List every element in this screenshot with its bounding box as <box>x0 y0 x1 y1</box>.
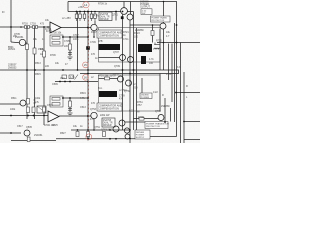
label box supply lower <box>135 130 150 139</box>
wire mid bus A <box>0 70 179 74</box>
transistor Q701 <box>121 8 128 15</box>
transistor Q707 <box>120 55 126 61</box>
wire rail drop left <box>67 2 69 12</box>
transistor Q753 <box>91 112 97 118</box>
transistor Q752 <box>113 126 119 132</box>
wire v160 <box>159 29 161 70</box>
wire v136 <box>136 28 138 138</box>
label box 0.22 top <box>141 9 152 15</box>
node 14 red circle <box>83 2 89 8</box>
label box diode lower <box>140 93 152 99</box>
transistor Q765 <box>124 128 129 133</box>
transistor Q705 <box>160 23 166 29</box>
label box comparator upper <box>97 30 122 38</box>
coil L701 <box>154 43 161 50</box>
labels scatter <box>2 0 188 137</box>
wire op-amp U2 output <box>59 115 91 117</box>
wire v184 <box>183 72 185 143</box>
transistor Q702 <box>127 14 133 20</box>
top bus stub components <box>75 12 96 22</box>
resistor black bar <box>141 56 146 64</box>
op-amp U2 <box>48 111 59 122</box>
wire bottom left <box>11 140 56 142</box>
wire right out2 <box>184 121 200 123</box>
wire bottom bus2 <box>56 138 135 140</box>
wire zd to Q501 <box>11 41 20 44</box>
wire v70 low <box>69 98 71 112</box>
wire v77 <box>77 12 79 71</box>
connector J501 <box>37 106 46 113</box>
label box driver lower <box>102 118 115 127</box>
wire v70 <box>69 37 71 56</box>
wire driver row low <box>134 118 159 120</box>
label box top right <box>151 16 171 22</box>
wire v165 <box>163 29 165 70</box>
resistors upper left <box>25 26 72 58</box>
node 15 red circle <box>83 62 89 68</box>
label box driver upper <box>99 12 112 21</box>
wire right edge bottom <box>184 139 200 141</box>
black junction square Q701 <box>121 16 124 19</box>
wire upper feedback <box>62 36 88 38</box>
wire v165b <box>164 98 166 122</box>
wire bus C <box>55 81 98 83</box>
label box comparator lower <box>97 103 122 111</box>
transistor Q709 <box>128 57 134 63</box>
feedback net box lower <box>50 96 63 107</box>
feedback net box upper <box>50 35 63 46</box>
transistor Q501 <box>19 39 25 45</box>
resistors lower left <box>27 99 72 113</box>
output device black bar <box>138 44 152 52</box>
wire v116 <box>115 12 117 21</box>
diode stack ticks <box>26 100 36 103</box>
big box upper power amp <box>99 28 161 63</box>
wire v88 main <box>87 12 89 141</box>
wire op-amp U1 output <box>61 27 91 29</box>
wire right top rail <box>68 2 177 137</box>
op-amp U1 <box>50 22 61 33</box>
wire v122 <box>122 15 124 131</box>
wire right out1 <box>177 92 201 94</box>
transistor Q757 <box>118 76 124 82</box>
wire v130 <box>129 20 131 143</box>
resistor below Q505 <box>27 137 30 142</box>
wire v133 <box>133 12 135 131</box>
wire protector row <box>125 121 145 123</box>
transistor Q703 <box>91 24 97 30</box>
ground upper <box>68 57 73 60</box>
wire bottom right bus <box>150 136 177 138</box>
node 17 red circle <box>86 134 92 140</box>
red dashed path marker <box>88 9 90 134</box>
wire q5 row <box>0 103 20 105</box>
wire Q701 collector <box>123 2 125 8</box>
wire upper input bus <box>0 26 50 28</box>
label box protector lower <box>145 122 169 129</box>
wire q505 row <box>0 132 21 134</box>
IC U751 black bar <box>99 91 117 97</box>
VR trimmer upper <box>62 75 78 80</box>
wire lower feedback <box>62 97 88 99</box>
diode D751 <box>125 134 130 139</box>
transistor Q755 <box>158 115 164 121</box>
transistor Q503 <box>20 100 26 106</box>
node 16 red circle <box>83 74 89 80</box>
transistor Q505 <box>24 130 30 136</box>
transistor Q751 <box>119 120 125 126</box>
wire bottom bus1 <box>71 129 131 131</box>
wire lower input bus <box>0 115 48 117</box>
wire v35 <box>34 27 36 119</box>
wire v180 <box>180 43 182 144</box>
resistors bottom row <box>76 132 106 137</box>
wire Q702 collector <box>130 2 132 15</box>
wire v27 <box>26 27 28 119</box>
wire top bus right <box>127 11 133 13</box>
big box lower power amp <box>99 75 161 111</box>
series resistor on Q757 wire <box>105 77 110 80</box>
wire v left <box>10 0 12 42</box>
transistor Q759 <box>126 80 132 86</box>
wire top bus <box>68 11 121 13</box>
ground lower <box>68 113 73 116</box>
capacitor C705 <box>68 53 72 111</box>
IC U701 black bar <box>99 44 121 50</box>
wire right mid rail <box>157 42 200 44</box>
wire v44 <box>43 27 45 125</box>
